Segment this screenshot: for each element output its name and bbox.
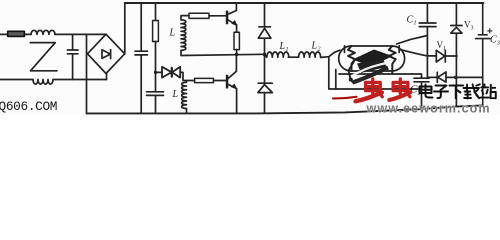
resistor R5 upper emitter	[236, 25, 238, 55]
watermark red swash	[333, 97, 357, 99]
capacitor C2 resonant	[414, 78, 429, 82]
transistor Q2 lower	[226, 75, 228, 88]
resistor R4 upper base	[189, 13, 209, 18]
wire Q2 emitter	[236, 88, 238, 113]
svg-text:2: 2	[318, 47, 321, 53]
lamp EL tube	[339, 46, 405, 71]
filter Z (line impedance symbol)	[30, 43, 57, 71]
inductor bottom AC filter coil	[33, 80, 53, 85]
node diac junction dot	[154, 71, 157, 74]
diode VD1 upper freewheel	[258, 3, 271, 55]
wire lamp right to V1	[400, 50, 428, 56]
wire bridge bottom lead	[106, 74, 108, 80]
bridge rectifier VC	[88, 34, 125, 73]
diode V3	[451, 3, 462, 107]
svg-text:Q606.COM: Q606.COM	[0, 99, 57, 114]
watermark red character chong 2	[389, 79, 410, 100]
watermark black text zhan	[480, 84, 496, 98]
inductor top AC filter coil	[31, 30, 55, 34]
capacitor C3 electrolytic	[476, 3, 491, 106]
wire lower base	[214, 80, 227, 82]
capacitor across AC line	[67, 34, 78, 79]
watermark black text xia	[450, 86, 464, 99]
inductor L2 resonant	[299, 52, 322, 57]
inductor L lower feedback winding	[182, 81, 187, 114]
fuse FU	[8, 31, 25, 36]
wire DC minus drop	[86, 34, 88, 113]
watermark black text dian	[420, 85, 433, 98]
inductor L upper feedback winding	[181, 16, 189, 55]
svg-text:L: L	[279, 41, 286, 52]
node V2 junction dot	[454, 76, 457, 79]
capacitor C smoothing	[135, 3, 148, 113]
svg-text:1: 1	[443, 46, 446, 52]
plus mark C3	[488, 29, 492, 33]
transistor Q1 upper	[226, 11, 228, 24]
diode inside bridge	[102, 50, 111, 59]
lamp right filament	[389, 46, 396, 74]
lamp left electrode tab	[344, 46, 346, 53]
lamp right electrode tab	[398, 46, 400, 53]
node midpoint dot A	[235, 53, 238, 56]
diode V2	[427, 72, 482, 83]
watermark black text zi	[434, 86, 448, 99]
watermark red character chong 1	[356, 79, 383, 102]
svg-text:C: C	[407, 15, 414, 26]
wire bridge DC plus lead	[124, 3, 126, 54]
svg-text:3: 3	[471, 26, 474, 32]
capacitor C1 blocking	[419, 3, 436, 77]
wire lamp holder inner edge	[335, 70, 337, 90]
watermark graduation cap	[349, 50, 393, 85]
node diode tap dot B	[263, 53, 266, 56]
svg-text:L: L	[172, 89, 179, 100]
inductor L1 resonant	[265, 52, 289, 57]
svg-text:1: 1	[414, 21, 417, 27]
diode VD2 lower freewheel	[258, 55, 273, 113]
diode V1	[427, 50, 457, 62]
wire bottom rail	[87, 105, 484, 113]
watermark black text zai	[464, 84, 480, 98]
svg-text:3: 3	[496, 41, 500, 47]
resistor R2 lower base	[195, 78, 214, 82]
wire Q2 collector	[235, 55, 237, 72]
wire top rail	[125, 2, 484, 4]
svg-text:L: L	[311, 41, 318, 52]
svg-text:1: 1	[286, 47, 289, 53]
wire L2 to lamp	[321, 50, 340, 57]
capacitor C startup	[147, 92, 164, 113]
svg-text:L: L	[169, 28, 176, 39]
wire half-bridge midpoint	[181, 54, 265, 55]
wire lamp right to C1	[397, 36, 428, 45]
wire between L1 L2	[288, 56, 298, 58]
wire bottom AC line	[0, 79, 107, 81]
diac VD	[162, 67, 180, 78]
svg-text:www.eeworm.com: www.eeworm.com	[366, 102, 491, 115]
wire lamp loop with C2	[329, 57, 422, 109]
wire diac feed	[156, 72, 195, 80]
wire top AC line	[0, 33, 106, 35]
lamp left filament	[348, 46, 355, 71]
resistor R1 startup	[155, 3, 157, 92]
svg-text:C: C	[490, 35, 497, 46]
wire upper base	[209, 15, 226, 17]
